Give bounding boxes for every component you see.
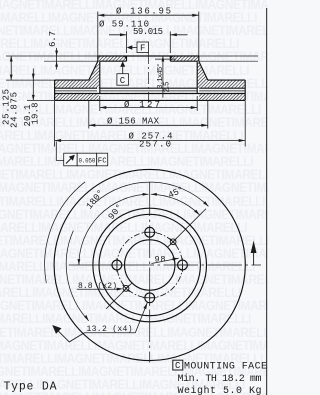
band top extension to far left [6, 79, 55, 81]
hatch right flange [170, 56, 199, 61]
hatch right bottom plate [199, 94, 245, 101]
dim 6.7 line + arrows [56, 48, 58, 70]
bolt hole N [145, 227, 155, 237]
hatch left flange [98, 56, 127, 61]
bolt hole W [112, 260, 122, 270]
step extension right [199, 60, 258, 62]
leader 13.2 underline [84, 332, 135, 334]
datum F box [137, 42, 149, 53]
band bottom edge [55, 99, 246, 101]
svg-text:2.5: 2.5 [163, 81, 171, 92]
runout symbol [66, 155, 75, 164]
radial line 225 degrees [106, 283, 132, 309]
step extension left (6.7) [44, 60, 98, 62]
svg-text:Min. TH 18.2 mm: Min. TH 18.2 mm [178, 373, 262, 385]
braking band inner circle [93, 208, 207, 322]
dim 136.95 ext lines [97, 12, 99, 62]
leader 13.2 to bolt hole [135, 303, 147, 333]
svg-text:19.8: 19.8 [31, 103, 41, 125]
dim 257.4 ext lines [54, 101, 56, 147]
bolt hole S [145, 293, 155, 303]
arrowhead 180 arc bottom end [84, 315, 89, 321]
dim 59.110 ext lines [126, 31, 128, 53]
border right edge frame [266, 8, 268, 395]
section view arrow right [253, 253, 255, 266]
bore wall right [169, 56, 171, 61]
dim 59.110 line [109, 34, 127, 36]
svg-text:C: C [120, 76, 126, 86]
svg-text:98: 98 [155, 254, 166, 264]
svg-text:Type DA: Type DA [4, 381, 57, 394]
svg-text:6.7: 6.7 [48, 31, 58, 47]
svg-text:13.2 (x4): 13.2 (x4) [87, 325, 133, 334]
bottom plate top edge [55, 93, 246, 95]
radial line 45 degrees [167, 209, 206, 248]
dim 127 line [100, 107, 197, 109]
bolt hole E tick marks [176, 258, 190, 272]
section view arrow bottom left [55, 328, 85, 342]
lip outer right [198, 56, 200, 61]
mounting face extension right [199, 55, 258, 57]
svg-text:90°: 90° [107, 202, 125, 222]
svg-text:Ø 127: Ø 127 [124, 100, 160, 110]
dim 25.125 line [10, 56, 12, 80]
dim arc 90 deg r70.8 [79, 194, 149, 265]
FC frame leader [56, 142, 63, 161]
centerline of section [147, 52, 149, 102]
leader 8.8 underline [77, 288, 120, 290]
arrowhead 45 arc left end [151, 193, 157, 196]
bore wall left [126, 56, 128, 61]
leader 98 [152, 258, 179, 263]
lip outer left [97, 56, 99, 61]
svg-text:FC: FC [98, 158, 107, 166]
outer diameter circle [54, 169, 245, 360]
wall outer left slant [89, 61, 98, 80]
hub flange circle [99, 214, 200, 315]
dim 156 line [89, 124, 208, 126]
bolt hole E [178, 260, 188, 270]
datum C box [117, 74, 129, 86]
arrowhead 90 arc left end [78, 259, 81, 265]
hatch right wall + top plate [197, 61, 245, 88]
wall inner left [99, 61, 101, 93]
dim 257.4 line [55, 140, 246, 142]
band outer edge right [244, 80, 246, 100]
section dimension texts [1, 6, 172, 165]
svg-text:MOUNTING FACE: MOUNTING FACE [184, 362, 267, 373]
dim 156 ext lines [88, 101, 90, 129]
FC feature control frame [64, 153, 77, 166]
band top edge right [208, 79, 245, 81]
wall inner right [196, 61, 198, 93]
cross mark hole NE [170, 238, 177, 245]
svg-text:C: C [175, 361, 181, 371]
dim arc 180 deg r83 lower segment [66, 231, 88, 321]
svg-text:Weight 5.0 Kg: Weight 5.0 Kg [178, 385, 262, 395]
mounting face top line [98, 55, 199, 57]
hatch left wall + top plate [55, 61, 100, 88]
vent mid rib line [55, 90, 246, 92]
dim 20.1 line [32, 69, 34, 101]
flange underside right [170, 60, 197, 62]
front view labels [78, 185, 186, 334]
dim arc 45 deg r70.8 [151, 194, 200, 215]
arrowhead 180 arc top end [203, 201, 208, 206]
dim arc 180 deg r83 upper segment [96, 182, 209, 206]
top plate underside [55, 87, 246, 89]
note C mounting face box [173, 360, 183, 370]
outer reference arc r105 [45, 182, 85, 283]
dim 3.1x45 line [162, 56, 164, 98]
bore chamfer right [170, 56, 172, 59]
vertical centerline front view [149, 182, 151, 363]
svg-text:257.0: 257.0 [139, 140, 171, 150]
bolt hole N tick marks [143, 225, 157, 239]
bore chamfer left [124, 56, 126, 59]
center bore circle [125, 240, 175, 290]
svg-text:59.015: 59.015 [133, 27, 163, 37]
band bottom extension left [27, 99, 55, 101]
bolt hole S tick marks [143, 291, 157, 305]
svg-text:45°: 45° [167, 185, 186, 201]
arrowhead 45 arc right end [194, 210, 200, 216]
dim 136.95 line [98, 14, 199, 16]
svg-text:8.8 (x2): 8.8 (x2) [78, 282, 117, 291]
band outer edge left [54, 80, 56, 100]
horizontal centerline front view [69, 264, 261, 266]
svg-text:Ø 156 MAX: Ø 156 MAX [107, 116, 160, 126]
small hole NE 8.8 [170, 239, 176, 245]
dim 127 ext lines [99, 96, 101, 111]
small hole SW 8.8 [123, 286, 129, 292]
flange underside left [100, 60, 127, 62]
svg-text:0.050: 0.050 [79, 157, 96, 165]
svg-text:F: F [140, 44, 145, 54]
svg-text:Ø 136.95: Ø 136.95 [116, 6, 171, 16]
mounting face extension left [6, 55, 98, 57]
cross mark hole SW [123, 285, 130, 292]
bolt circle PCD dash-dot [117, 232, 183, 298]
band top edge left [55, 79, 89, 81]
arrowhead 90 arc top end [143, 193, 149, 196]
bolt hole W tick marks [110, 258, 124, 272]
hatch left bottom plate [55, 94, 99, 101]
svg-text:24.875: 24.875 [9, 92, 19, 128]
wall outer right slant [199, 61, 208, 80]
